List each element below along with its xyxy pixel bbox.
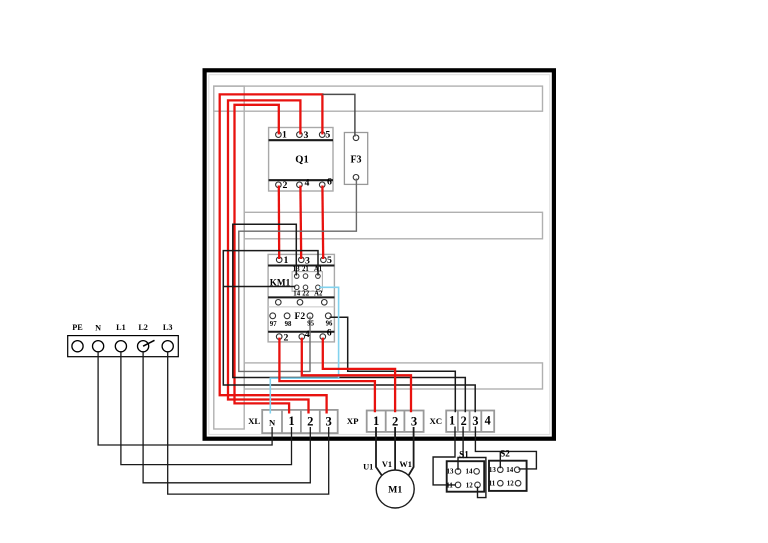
svg-text:XC: XC (429, 416, 442, 426)
wire duct middle (244, 212, 542, 239)
svg-text:Q1: Q1 (295, 154, 308, 165)
wire XP-2 to motor V1 (394, 427, 396, 470)
svg-text:97: 97 (270, 321, 277, 328)
wire XP-1 to motor U1 (376, 427, 382, 476)
labels XC strip (429, 414, 490, 429)
svg-text:1: 1 (449, 414, 455, 428)
svg-text:L2: L2 (138, 323, 148, 332)
svg-text:XL: XL (248, 416, 260, 426)
wire KM1-A1 to XC-3 (223, 251, 475, 413)
motor M1 (376, 470, 414, 508)
wire L2 red XL-2 to Q1-3 (228, 100, 309, 413)
wire KM1-6 to XP-2 red (323, 338, 395, 413)
svg-text:2: 2 (284, 332, 289, 343)
labels XL strip (248, 414, 332, 429)
contactor KM1 with overload F2 box (268, 254, 334, 342)
svg-text:14: 14 (506, 466, 514, 474)
wire KM1-A2 to XL-N cyan (270, 287, 338, 413)
svg-text:2: 2 (307, 415, 313, 429)
svg-text:11: 11 (489, 480, 496, 488)
svg-text:6: 6 (327, 176, 332, 187)
svg-text:3: 3 (304, 130, 309, 141)
svg-text:3: 3 (305, 255, 310, 266)
wire F2-96 to XC-1 (330, 317, 456, 412)
wire F3 bottom to F2-95 (239, 179, 357, 372)
svg-text:4: 4 (305, 329, 310, 340)
wire S1-12 loop to XC-2 node (463, 458, 486, 498)
svg-text:11: 11 (446, 481, 453, 489)
svg-text:5: 5 (327, 255, 332, 266)
svg-text:S1: S1 (459, 449, 469, 459)
svg-text:A2: A2 (314, 291, 323, 298)
panel enclosure (205, 70, 554, 438)
svg-text:4: 4 (304, 178, 309, 189)
wire XC-1 to S1-11 (433, 427, 456, 485)
svg-text:KM1: KM1 (270, 278, 291, 288)
wire KM1-14 junction (223, 286, 295, 288)
svg-text:2: 2 (461, 414, 467, 428)
svg-text:N: N (269, 417, 276, 427)
labels KM1 / F2 (270, 255, 333, 344)
labels XP strip (347, 414, 417, 429)
svg-text:12: 12 (507, 480, 515, 488)
svg-text:1: 1 (283, 255, 288, 266)
terminal strip XC (446, 411, 494, 432)
svg-text:U1: U1 (363, 463, 373, 472)
svg-text:13: 13 (447, 468, 455, 476)
wire S2-13 stub (499, 451, 501, 468)
svg-text:14: 14 (293, 291, 300, 298)
wire KM1-4 to XP-3 red (302, 338, 411, 413)
svg-text:14: 14 (466, 468, 474, 476)
wire KM1-2 to XP-1 red (279, 338, 375, 413)
svg-text:XP: XP (347, 416, 359, 426)
terminal strip XP (367, 411, 424, 432)
labels S1 (446, 449, 473, 489)
labels Q1 (282, 129, 332, 191)
wire KM1-13 to XC-2 (233, 224, 465, 412)
svg-text:M1: M1 (388, 485, 402, 496)
svg-text:3: 3 (326, 415, 332, 429)
svg-text:5: 5 (325, 129, 330, 140)
svg-text:6: 6 (327, 328, 332, 339)
wire Q1-4 to KM1-3 red (299, 186, 302, 260)
svg-text:V1: V1 (382, 460, 392, 469)
fuse F3 box (344, 133, 367, 185)
svg-text:PE: PE (72, 323, 83, 332)
overload relay F2 terminals (270, 313, 276, 319)
pushbutton S1 box (447, 461, 485, 492)
svg-text:1: 1 (373, 414, 379, 428)
svg-text:13: 13 (489, 466, 497, 474)
labels supply strip (72, 323, 172, 333)
wire N supply to XL-N (98, 352, 272, 445)
wire L2 supply to XL-2 (143, 352, 310, 483)
svg-text:W1: W1 (399, 460, 412, 469)
L2 lever (143, 340, 154, 346)
svg-text:1: 1 (282, 130, 287, 141)
svg-text:2: 2 (283, 180, 288, 191)
wire L1 supply to XL-1 (121, 352, 292, 465)
wire duct bottom (244, 363, 542, 389)
labels motor (363, 460, 412, 496)
svg-text:1: 1 (288, 414, 294, 428)
svg-text:2: 2 (392, 415, 398, 429)
svg-text:F2: F2 (294, 311, 305, 322)
KM1 aux contact block (292, 272, 322, 292)
wire XC-2 to S1-13 (458, 427, 463, 471)
svg-text:96: 96 (326, 321, 333, 328)
svg-text:A1: A1 (314, 266, 323, 273)
svg-text:22: 22 (302, 291, 309, 298)
svg-text:21: 21 (302, 266, 309, 273)
svg-text:L1: L1 (116, 323, 126, 332)
F2 upper terminals (276, 300, 282, 306)
wire L1 red XL-1 to Q1-1 (235, 105, 290, 414)
wire duct vertical left (214, 86, 244, 429)
svg-text:3: 3 (411, 415, 417, 429)
pushbutton S2 box (489, 461, 527, 491)
svg-text:95: 95 (307, 321, 314, 328)
wire XP-3 to motor W1 (409, 427, 414, 476)
wire Q1-6 to KM1-5 red (321, 186, 324, 260)
svg-text:12: 12 (466, 481, 474, 489)
terminal strip XL (262, 410, 338, 433)
supply terminal strip PE N L1 L2 L3 (68, 336, 179, 357)
wire L3 supply to XL-3 (168, 352, 329, 494)
wire L3 red XL-3 to Q1-5 (220, 94, 327, 413)
wire duct top (214, 86, 543, 111)
wire F3 top feed (322, 94, 355, 136)
breaker Q1 box (269, 128, 333, 192)
svg-text:3: 3 (472, 414, 478, 428)
svg-text:S2: S2 (500, 448, 510, 458)
svg-text:L3: L3 (163, 323, 173, 332)
wire Q1-2 to KM1-1 red (278, 186, 281, 260)
svg-text:N: N (95, 323, 101, 332)
svg-text:F3: F3 (350, 154, 361, 165)
wire XC-3 to S2-14 (475, 427, 536, 469)
svg-text:98: 98 (285, 321, 292, 328)
svg-text:13: 13 (293, 266, 300, 273)
svg-text:4: 4 (485, 414, 491, 428)
labels S2 (489, 448, 515, 487)
